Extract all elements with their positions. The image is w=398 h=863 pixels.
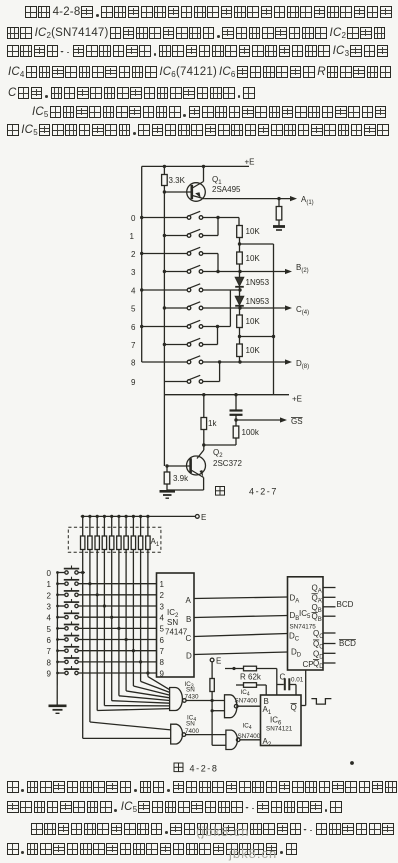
svg-text:IC5: IC5 [299, 609, 311, 620]
svg-text:3.9k: 3.9k [173, 474, 189, 483]
svg-text:4: 4 [160, 614, 165, 623]
top paragraph line 4 [7, 65, 393, 79]
svg-text:5: 5 [131, 305, 136, 314]
wire +E top rail fig1 [142, 165, 249, 167]
wire row 8 to encoder [78, 661, 156, 663]
gate IC4 SN7400 c [226, 730, 238, 749]
wire bus V2 down to Q2 base [163, 382, 165, 467]
svg-text:9: 9 [160, 669, 165, 678]
svg-text:QB: QB [312, 612, 322, 623]
wire row 9 to encoder [78, 672, 156, 674]
svg-text:8: 8 [47, 658, 52, 667]
svg-text:4: 4 [131, 287, 136, 296]
ground fig2 [49, 704, 67, 707]
ground fig1 bottom [160, 490, 176, 493]
node E mid fig2 [210, 658, 214, 662]
top paragraph 2 line 2 [7, 123, 391, 137]
svg-text:0: 0 [131, 214, 136, 223]
svg-text:1: 1 [47, 580, 52, 589]
resistor network R9 [146, 515, 149, 518]
wire right vertical bus fig1 [273, 244, 275, 395]
wire row 7 to encoder [78, 650, 156, 652]
op IC2 SN74147 encoder box [157, 573, 195, 677]
svg-text:2: 2 [160, 591, 165, 600]
svg-text:SN: SN [167, 618, 178, 627]
svg-text:SN74121: SN74121 [266, 726, 293, 733]
resistor 100k [235, 420, 237, 426]
svg-text:7430: 7430 [185, 694, 200, 701]
wire bus 4 [111, 550, 113, 701]
op IC6 SN74121 box [261, 695, 302, 746]
wire row0 to column [203, 217, 239, 219]
svg-text:E: E [216, 657, 221, 666]
wire left bus V1 fig1 [141, 166, 143, 362]
svg-text:IC4: IC4 [241, 689, 250, 698]
svg-text:3: 3 [160, 602, 165, 611]
resistor below E [211, 662, 213, 679]
capacitor fig1 [235, 395, 237, 410]
wire row0 down to R 10K [238, 218, 240, 226]
wire bus 0 [82, 550, 84, 739]
resistor 3.3K [162, 175, 168, 186]
resistor network R5 [117, 515, 120, 518]
wire bus 9 [147, 550, 149, 677]
wire row 6 to encoder [78, 639, 156, 641]
wire bus V2 fig1 [163, 166, 165, 174]
svg-text:10K: 10K [246, 254, 261, 263]
top paragraph line 1 [7, 5, 393, 19]
svg-text:Q2: Q2 [213, 448, 223, 459]
top paragraph line 5 [7, 86, 256, 100]
resistor 10K (1) [237, 226, 243, 238]
svg-text:D: D [186, 652, 192, 661]
svg-text:SN7400: SN7400 [235, 698, 258, 705]
wire row2 join row3 [203, 253, 218, 255]
svg-text:DD: DD [291, 648, 302, 659]
waveform pulse symbol [311, 699, 331, 705]
svg-text:7: 7 [47, 647, 52, 656]
svg-text:9: 9 [131, 378, 136, 387]
resistor 10K (4) [237, 344, 243, 357]
svg-text:6: 6 [131, 323, 136, 332]
bottom paragraph line 1 [7, 780, 398, 794]
wire staircase to IC3 inputs [97, 709, 169, 711]
wire common ground bus fig2 [56, 573, 58, 706]
svg-text:A1: A1 [263, 705, 272, 716]
wire bus1 to IC4 gate2 input [90, 722, 171, 730]
wire IC3 out to IC4a [186, 700, 224, 702]
svg-text:100k: 100k [242, 428, 260, 437]
svg-text:2: 2 [131, 250, 136, 259]
wire bus 2 [96, 550, 98, 711]
resistor network R0 [81, 515, 84, 518]
wire node to right bus lower [240, 336, 274, 338]
gate IC4 SN7400 b [225, 695, 237, 718]
svg-text:BCD: BCD [339, 639, 356, 648]
svg-text:8: 8 [160, 658, 165, 667]
wire row5 = C line [203, 307, 286, 309]
svg-text:SN: SN [186, 720, 195, 727]
svg-text:9: 9 [47, 670, 52, 679]
diode 1N953 (2) [239, 290, 241, 296]
svg-text:2SC372: 2SC372 [213, 459, 242, 468]
svg-text:8: 8 [131, 359, 136, 368]
top paragraph line 3 [7, 44, 390, 58]
transistor Q2 2SC372 [187, 456, 206, 475]
op IC5 SN74175 latch box [288, 577, 324, 670]
svg-text:0.01: 0.01 [291, 677, 304, 684]
resistor network A1 dashed box [68, 527, 161, 552]
svg-text:DA: DA [290, 594, 300, 605]
resistor network R3 [103, 515, 106, 518]
resistor network R6 [125, 515, 128, 518]
wire bus 6 [125, 550, 127, 691]
wire E vertical to gates [211, 692, 213, 746]
svg-text:A(1): A(1) [301, 195, 314, 206]
resistor R 62k [225, 668, 244, 670]
caption fig 4-2-8 [174, 763, 183, 772]
wire A output line [204, 198, 291, 200]
svg-text:5: 5 [160, 625, 165, 634]
resistor network R8 [139, 515, 142, 518]
svg-text:+E: +E [292, 395, 302, 404]
svg-text:DB: DB [290, 611, 300, 622]
svg-text:D(8): D(8) [296, 359, 309, 370]
svg-text:GS: GS [291, 417, 303, 426]
wire row 4 to encoder [78, 616, 156, 618]
wire IC4a out to IC4c [186, 734, 226, 736]
svg-text:5: 5 [47, 625, 52, 634]
resistor network R1 [88, 515, 91, 518]
top paragraph line 2 [7, 26, 387, 40]
svg-text:6: 6 [160, 636, 165, 645]
svg-text:1: 1 [130, 232, 135, 241]
svg-text:BCD: BCD [337, 600, 354, 609]
svg-text:A: A [186, 596, 192, 605]
svg-text:SN: SN [186, 687, 195, 694]
svg-text:74147: 74147 [165, 628, 188, 637]
wire row 0 to encoder [78, 572, 85, 574]
wire row1 join row0 [203, 235, 218, 237]
wire row 3 to encoder [78, 605, 156, 607]
resistor network R7 [132, 515, 135, 518]
svg-text:10K: 10K [246, 227, 261, 236]
svg-text:R 62k: R 62k [240, 673, 262, 682]
svg-text:7: 7 [131, 341, 136, 350]
svg-text:3: 3 [131, 268, 136, 277]
svg-text:4-2-7: 4-2-7 [249, 487, 278, 497]
svg-text:0: 0 [47, 569, 52, 578]
wire GS line [234, 418, 237, 421]
watermark jbk8.cn bottom [229, 846, 277, 861]
bottom paragraph 2 line 2 [7, 842, 299, 856]
resistor network R2 [96, 515, 99, 518]
svg-text:DC: DC [289, 632, 300, 643]
wire E rail fig2 [81, 515, 196, 517]
resistor second horizontal [244, 683, 257, 688]
wire row 5 to encoder [78, 627, 156, 629]
wire bus 7 [132, 550, 134, 687]
wire row4 to diode node [203, 289, 241, 291]
wire collector node to 100k [204, 444, 236, 446]
svg-text:7400: 7400 [185, 728, 200, 735]
resistor 10K (2) [237, 252, 243, 264]
bottom paragraph line 2 [7, 800, 343, 814]
svg-text:1k: 1k [208, 419, 217, 428]
wire encoder B to latch DB [194, 616, 288, 618]
wire bus0 to IC4 gate2 input [83, 737, 171, 739]
svg-text:1N953: 1N953 [246, 278, 270, 287]
wire second branch [236, 684, 244, 686]
diode 1N953 (1) [239, 272, 241, 278]
transistor Q1 2SA495 [187, 183, 206, 202]
svg-text:10K: 10K [246, 346, 261, 355]
wire row7 join row6 [203, 344, 218, 346]
wire row3 = B line [203, 271, 286, 273]
wire IC4b out to 74121 [238, 705, 261, 707]
resistor 10K (3) [239, 308, 241, 315]
svg-text:4-2-8: 4-2-8 [190, 764, 219, 774]
gate IC3 SN7430 [170, 688, 183, 711]
svg-text:2SA495: 2SA495 [212, 185, 241, 194]
caption fig 4-2-7 [216, 487, 225, 496]
svg-text:A1: A1 [151, 537, 160, 548]
resistor 3.9k [166, 466, 168, 472]
wire row9 join row8 [203, 381, 220, 383]
svg-text:C(4): C(4) [296, 305, 309, 316]
stray dot mark [350, 761, 354, 765]
svg-text:SN7400: SN7400 [238, 733, 261, 740]
wire IC4c out to 74121 A2 [240, 739, 261, 741]
wire row8 = D line [203, 361, 286, 363]
svg-text:4: 4 [47, 614, 52, 623]
wire row 2 to encoder [78, 594, 156, 596]
bottom paragraph 2 line 1 [7, 822, 396, 836]
resistor network R4 [110, 515, 113, 518]
wire encoder C to latch DC [194, 634, 288, 637]
svg-text:IC4: IC4 [243, 723, 252, 732]
wire emitter down-left to ground [203, 478, 205, 491]
svg-text:1: 1 [160, 580, 165, 589]
wire row 1 to encoder [78, 583, 156, 585]
svg-text:3: 3 [47, 603, 52, 612]
svg-text:B: B [186, 615, 191, 624]
wire Q out to CP [301, 705, 306, 707]
svg-text:A2: A2 [263, 737, 272, 748]
svg-text:+E: +E [245, 158, 255, 167]
wire encoder D to latch DD [194, 652, 288, 655]
watermark jbk8.cn mid [196, 824, 250, 839]
svg-text:E: E [201, 513, 206, 522]
wire node to right bus [240, 243, 274, 245]
wire row4-row6 vertical [229, 290, 231, 327]
wire bus 1 [89, 550, 91, 723]
svg-text:C: C [186, 634, 192, 643]
svg-text:2: 2 [47, 591, 52, 600]
wire bus 8 [140, 550, 142, 682]
svg-text:7: 7 [160, 647, 165, 656]
gate IC4 SN7400 a [171, 724, 183, 744]
svg-text:3.3K: 3.3K [169, 176, 186, 185]
svg-text:1N953: 1N953 [246, 297, 270, 306]
wire row6 [203, 326, 231, 328]
resistor on A line [278, 199, 280, 207]
top paragraph 2 line 1 [7, 105, 388, 119]
svg-text:B(2): B(2) [296, 263, 309, 274]
wire encoder A to latch DA [194, 597, 288, 599]
svg-text:Q: Q [291, 703, 297, 712]
svg-text:10K: 10K [246, 317, 261, 326]
resistor 1k collector [203, 395, 205, 418]
svg-text:6: 6 [47, 636, 52, 645]
ground below A resistor [273, 225, 285, 228]
wire bus 5 [118, 550, 120, 696]
wire +E line lower [164, 394, 289, 396]
svg-text:CP: CP [303, 660, 314, 669]
wire bus 3 [103, 550, 105, 706]
